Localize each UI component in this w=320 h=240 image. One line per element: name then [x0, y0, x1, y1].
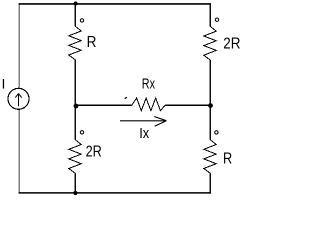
- wire top: [19, 3, 211, 5]
- node middle-right: [208, 103, 213, 108]
- resistor 2R (top-right): [204, 26, 217, 60]
- svg-text:Ix: Ix: [139, 125, 149, 142]
- svg-text:I: I: [2, 76, 6, 92]
- svg-text:R: R: [87, 34, 97, 51]
- pin marker Rx: [125, 97, 127, 98]
- pin marker 2R top: [215, 18, 218, 21]
- wire middle left of Rx: [75, 104, 132, 106]
- wire right middle: [209, 60, 211, 140]
- pin marker R bottom: [215, 131, 218, 134]
- svg-text:Rx: Rx: [142, 75, 156, 92]
- pin marker 2R bottom: [80, 131, 83, 134]
- wire right upper: [209, 4, 211, 27]
- wire left lower: [18, 109, 20, 193]
- wire left upper: [18, 4, 20, 89]
- node bottom: [73, 191, 77, 195]
- node middle-left: [74, 104, 79, 109]
- resistor R (bottom-right): [204, 140, 217, 174]
- wire mid-branch center: [74, 60, 76, 140]
- wire mid-branch lower: [74, 173, 76, 193]
- svg-text:R: R: [223, 151, 232, 168]
- pin marker R1: [80, 19, 83, 22]
- current arrow Ix: [120, 120, 165, 122]
- svg-text:2R: 2R: [223, 36, 240, 53]
- wire bottom: [19, 192, 211, 194]
- node top: [74, 2, 78, 6]
- resistor R1 (top-left): [69, 26, 82, 60]
- wire middle right of Rx: [165, 104, 210, 106]
- resistor 2R (bottom-left): [69, 140, 82, 174]
- wire right lower: [209, 173, 211, 193]
- current source I: [8, 88, 29, 109]
- svg-text:2R: 2R: [86, 144, 102, 161]
- resistor Rx (middle): [132, 98, 165, 111]
- wire mid-branch upper: [74, 4, 76, 26]
